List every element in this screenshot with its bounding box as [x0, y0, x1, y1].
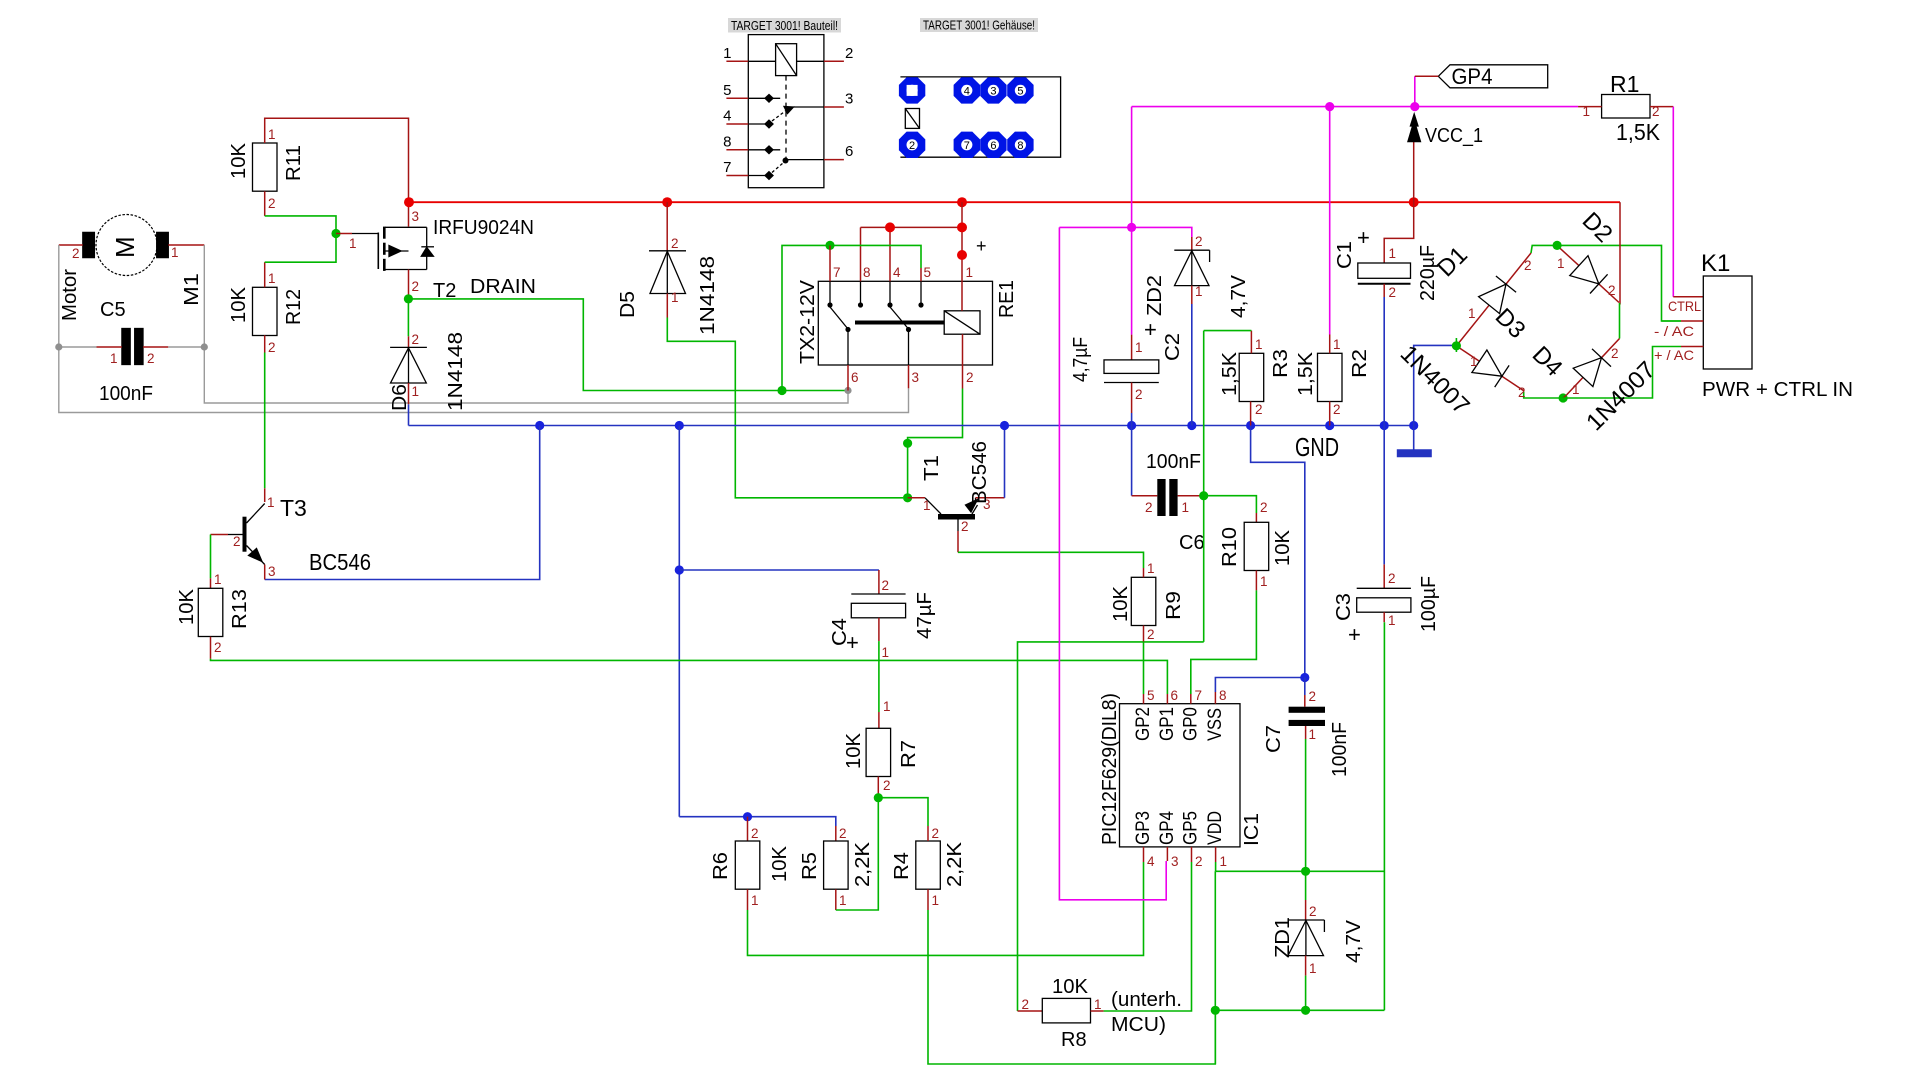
wire R3 branch to VSS and C7.2	[1251, 426, 1305, 678]
relay symbol pin 2	[824, 60, 844, 62]
node junction R6.2	[743, 812, 752, 821]
capacitor C2 4,7uF	[1131, 335, 1133, 360]
svg-text:GP0: GP0	[1181, 707, 1202, 741]
wire GP4 horizontal to ZD2	[1059, 227, 1191, 237]
wire R4.1 to VDD rail	[927, 889, 929, 910]
wire VDD vertical to R4 rail	[1214, 871, 1216, 1064]
transistor T3 BC546	[243, 517, 247, 552]
zener ZD1 4,7V	[1305, 871, 1307, 900]
relay package pad 6	[980, 132, 1006, 158]
resistor R11	[253, 143, 278, 191]
wire relay pin7 stub	[829, 245, 831, 281]
wire relay pin6 stub	[847, 365, 849, 391]
node gate junction	[331, 229, 340, 238]
wire bridge plus riser	[1619, 202, 1621, 304]
svg-text:GP4: GP4	[1452, 64, 1493, 89]
node GND junction symbol	[1409, 421, 1418, 430]
node GP4 junction R2	[1325, 102, 1334, 111]
svg-text:2: 2	[845, 45, 853, 62]
wire ZD1 lower rail	[1215, 1009, 1384, 1011]
wire node to R4.2	[878, 798, 928, 826]
svg-text:1: 1	[267, 495, 275, 510]
svg-text:R11: R11	[283, 145, 305, 181]
svg-text:2: 2	[1309, 904, 1317, 919]
svg-text:R5: R5	[799, 852, 821, 880]
svg-text:C3: C3	[1333, 593, 1355, 621]
relay symbol coil	[776, 44, 797, 76]
transistor T1 BC546	[908, 497, 925, 499]
svg-text:1,5K: 1,5K	[1219, 351, 1241, 396]
svg-text:10K: 10K	[1272, 529, 1294, 566]
wire GP4 long vertical to MCU	[1059, 227, 1166, 899]
resistor R10	[1244, 522, 1269, 570]
svg-text:M: M	[110, 236, 140, 258]
relay symbol pin 8	[726, 149, 748, 151]
node bridge AC top junction	[1553, 241, 1562, 250]
svg-text:Motor: Motor	[59, 269, 81, 321]
resistor R1 (horizontal)	[1602, 95, 1650, 119]
zener ZD2 4,7V	[1191, 237, 1193, 250]
node gray junction relay pin6/motor	[844, 387, 851, 394]
svg-text:TARGET 3001! Gehäuse!: TARGET 3001! Gehäuse!	[923, 19, 1035, 33]
svg-text:7: 7	[964, 140, 970, 152]
svg-text:3: 3	[268, 564, 276, 579]
wire R13.2 stub	[210, 637, 212, 659]
node drain junction	[404, 294, 413, 303]
svg-text:C5: C5	[100, 299, 126, 321]
svg-text:1: 1	[723, 45, 731, 62]
svg-text:1: 1	[349, 236, 357, 251]
svg-text:2: 2	[1145, 500, 1153, 515]
wire GND bus	[409, 425, 1414, 427]
C5 pin1 stub	[96, 346, 122, 348]
svg-text:2: 2	[1388, 571, 1396, 586]
svg-text:GND: GND	[1295, 432, 1339, 462]
svg-text:1: 1	[1309, 727, 1317, 742]
motor M1	[96, 215, 157, 276]
svg-text:1: 1	[268, 127, 276, 142]
relay symbol pin 4	[726, 123, 748, 125]
relay RE1 TX2-12V box	[818, 281, 992, 365]
wire T1 base to R9	[958, 552, 1144, 568]
relay package pad 1	[899, 77, 925, 103]
relay symbol pin 1	[726, 60, 748, 62]
svg-text:2: 2	[214, 640, 222, 655]
svg-text:10K: 10K	[843, 732, 865, 769]
node coil feed junction pin1	[957, 222, 967, 232]
resistor R5	[824, 841, 849, 889]
svg-text:2: 2	[1260, 500, 1268, 515]
svg-text:3: 3	[845, 91, 853, 108]
svg-text:C2: C2	[1162, 333, 1184, 361]
wire C7.2 stub	[1304, 678, 1306, 696]
svg-text:7: 7	[833, 265, 841, 280]
wire D6 anode to GND bus	[408, 404, 410, 425]
wire gray motor-right net	[204, 245, 848, 403]
wire R2.1 magenta vertical	[1329, 107, 1331, 335]
svg-text:GP3: GP3	[1133, 811, 1154, 845]
wire R9.1 stub	[1143, 568, 1145, 577]
svg-text:BC546: BC546	[969, 441, 991, 504]
wire C6 net to R3.1	[1204, 330, 1252, 332]
node junction C4.2 branch	[675, 565, 684, 574]
svg-text:1N4148: 1N4148	[697, 256, 719, 335]
wire T1 emitter to GND bus	[1004, 426, 1006, 498]
svg-text:PIC12F629(DIL8): PIC12F629(DIL8)	[1099, 693, 1121, 845]
node bus junction R11/T2	[404, 197, 414, 207]
svg-text:7: 7	[723, 159, 731, 176]
svg-text:ZD1: ZD1	[1272, 917, 1294, 958]
svg-text:2: 2	[1389, 285, 1397, 300]
wire GP4 flag stub	[1415, 75, 1439, 77]
svg-text:T3: T3	[280, 495, 307, 521]
wire relay aux contacts to drain	[782, 245, 921, 390]
svg-text:C1: C1	[1334, 241, 1356, 269]
svg-text:R9: R9	[1163, 591, 1185, 620]
node junction C7.2	[1300, 673, 1309, 682]
RE1 switch arm 7-6	[830, 307, 848, 329]
svg-text:2: 2	[1611, 346, 1619, 361]
svg-text:1: 1	[412, 384, 420, 399]
svg-text:R4: R4	[891, 852, 913, 880]
svg-text:+: +	[1144, 317, 1157, 342]
svg-text:IRFU9024N: IRFU9024N	[433, 217, 534, 239]
wire gate divider net	[265, 216, 336, 262]
RE1 coil pin1 inside	[961, 281, 963, 311]
svg-text:2: 2	[147, 351, 155, 366]
wire C4.1 to R7.1	[878, 641, 880, 712]
svg-text:T1: T1	[921, 455, 943, 481]
svg-text:R10: R10	[1219, 527, 1241, 567]
wire C3.1 to VDD rail	[1383, 622, 1385, 1010]
resistor R2	[1318, 353, 1343, 401]
power VCC_1 arrow	[1413, 142, 1415, 202]
relay package pad 8	[1007, 132, 1033, 158]
svg-text:IC1: IC1	[1241, 813, 1263, 846]
wire R1.1 stub	[1578, 106, 1602, 108]
wire R13.2 to GP1 long run	[211, 659, 1168, 694]
svg-text:1,5K: 1,5K	[1616, 119, 1661, 145]
wire C2.2 to GND	[1131, 413, 1133, 426]
relay symbol switch arm 7-6	[772, 163, 783, 173]
relay symbol pin 5	[726, 97, 748, 99]
svg-text:4,7V: 4,7V	[1228, 274, 1250, 318]
capacitor C7 100nF	[1289, 707, 1325, 713]
IC1 pin2 stub	[1191, 847, 1193, 862]
relay symbol dashed link	[785, 76, 787, 160]
resistor R9	[1131, 577, 1156, 625]
wire C3.2 from GND	[1383, 426, 1385, 565]
svg-text:R6: R6	[710, 852, 732, 880]
svg-text:1: 1	[751, 893, 759, 908]
svg-text:1: 1	[932, 893, 940, 908]
node T1 collector net junction a	[903, 439, 912, 448]
svg-text:2: 2	[1333, 402, 1341, 417]
svg-text:2: 2	[1518, 385, 1526, 400]
svg-text:220µF: 220µF	[1417, 245, 1439, 301]
node relay pin7 junction	[825, 241, 834, 250]
svg-text:3: 3	[412, 209, 420, 224]
svg-text:TARGET 3001! Bauteil!: TARGET 3001! Bauteil!	[731, 19, 838, 33]
svg-text:2: 2	[1608, 283, 1616, 298]
svg-text:BC546: BC546	[309, 549, 371, 575]
svg-text:1: 1	[171, 245, 179, 260]
svg-text:2: 2	[72, 246, 80, 261]
svg-text:1: 1	[1255, 337, 1263, 352]
wire C6 net to R8.2 run	[1018, 642, 1204, 1011]
wire drain run to relay common	[408, 299, 845, 391]
svg-text:2: 2	[233, 534, 241, 549]
wire C4.2 branch	[679, 569, 879, 571]
wire R6.1 to GP3	[747, 889, 749, 910]
node bus junction relay coil	[957, 197, 967, 207]
svg-text:D5: D5	[617, 291, 639, 318]
wire C6 net vertical	[1203, 331, 1205, 642]
svg-text:8: 8	[863, 265, 871, 280]
node junction VDD/C7/ZD1	[1301, 867, 1310, 876]
relay symbol pin 7	[726, 175, 748, 177]
wire ZD2.1 to GND	[1191, 304, 1193, 426]
wire bridge left corner jogs	[1455, 338, 1457, 352]
svg-text:100nF: 100nF	[1146, 451, 1201, 473]
svg-text:5: 5	[1147, 688, 1155, 703]
svg-text:ZD2: ZD2	[1144, 275, 1166, 316]
IC1 pin7 stub	[1190, 694, 1192, 704]
svg-text:1: 1	[882, 645, 890, 660]
svg-text:2: 2	[1309, 689, 1317, 704]
wire +AC stub	[1681, 346, 1703, 348]
relay package pad 7	[954, 132, 980, 158]
relay component symbol box	[748, 35, 824, 188]
node junction R7.2/R5.1/R4.2	[874, 793, 883, 802]
svg-text:R3: R3	[1270, 349, 1292, 378]
diode D5 1N4148	[666, 202, 668, 251]
diode D2 1N4007	[1560, 248, 1579, 266]
svg-text:R7: R7	[898, 740, 920, 768]
diode D1 1N4007	[1458, 305, 1490, 344]
svg-text:2: 2	[966, 370, 974, 385]
svg-text:2: 2	[932, 826, 940, 841]
svg-text:+: +	[976, 236, 987, 256]
svg-text:10K: 10K	[1110, 585, 1132, 622]
svg-text:1: 1	[671, 290, 679, 305]
svg-text:R8: R8	[1061, 1029, 1087, 1051]
wire T2 source stub	[408, 202, 410, 226]
svg-text:6: 6	[1171, 688, 1179, 703]
svg-text:1: 1	[966, 265, 974, 280]
svg-text:10K: 10K	[228, 142, 250, 179]
svg-text:10K: 10K	[176, 588, 198, 625]
svg-text:GP1: GP1	[1157, 707, 1178, 741]
svg-text:100nF: 100nF	[1329, 722, 1351, 777]
node GND junction T3-emitter branch	[535, 421, 544, 430]
svg-text:C6: C6	[1179, 532, 1205, 554]
wire C6 net to R10.2	[1204, 496, 1257, 513]
svg-text:1: 1	[1388, 613, 1396, 628]
svg-text:1: 1	[1182, 500, 1190, 515]
svg-text:R2: R2	[1349, 349, 1371, 378]
svg-text:CTRL: CTRL	[1668, 298, 1701, 314]
svg-text:2: 2	[909, 140, 915, 152]
svg-text:1: 1	[923, 498, 931, 513]
node bus junction D5	[662, 197, 672, 207]
svg-text:1: 1	[1557, 256, 1565, 271]
wire R5.2 stub	[835, 826, 837, 841]
svg-text:1: 1	[268, 271, 276, 286]
wire gate stub	[336, 233, 352, 235]
svg-text:2: 2	[412, 332, 420, 347]
svg-text:2: 2	[268, 340, 276, 355]
svg-text:4: 4	[1147, 854, 1155, 869]
svg-text:R13: R13	[229, 589, 251, 629]
svg-text:M1: M1	[181, 273, 203, 306]
resistor R7	[866, 728, 891, 776]
svg-text:1: 1	[1470, 354, 1478, 369]
svg-text:1: 1	[1389, 246, 1397, 261]
node GND junction ZD2	[1187, 421, 1196, 430]
svg-text:+: +	[1357, 225, 1370, 250]
svg-text:1: 1	[1260, 574, 1268, 589]
node GP4 junction C2	[1127, 223, 1136, 232]
wire T3 base down	[210, 535, 212, 579]
svg-text:1N4148: 1N4148	[445, 332, 467, 411]
RE1 contact pin4	[889, 281, 891, 305]
svg-text:8: 8	[723, 134, 731, 151]
node gray junction C5.1	[55, 343, 62, 350]
svg-text:5: 5	[1017, 85, 1023, 97]
C5 pin2 stub	[143, 346, 168, 348]
RE1 contact pin8	[860, 281, 862, 305]
relay package pad 5	[1007, 77, 1033, 103]
wire R3.1 stub	[1250, 331, 1252, 354]
svg-text:3: 3	[912, 370, 920, 385]
wire gray C5.2 tap	[168, 346, 204, 348]
wire R11.1 to VCC riser	[265, 118, 409, 202]
svg-text:1: 1	[839, 893, 847, 908]
wire bridge bottom to +AC	[1563, 347, 1681, 399]
svg-text:1: 1	[1309, 961, 1317, 976]
svg-text:1: 1	[883, 699, 891, 714]
IC IC1 PIC12F629(DIL8)	[1120, 704, 1241, 847]
wire motor pin2 stub	[59, 244, 83, 246]
wire R2.1 stub	[1329, 335, 1331, 354]
svg-text:VSS: VSS	[1205, 708, 1226, 741]
wire R2.2 stub	[1329, 402, 1331, 426]
wire R3.2 stub	[1250, 402, 1252, 426]
node drain/relay-aux junction	[777, 386, 786, 395]
resistor R13	[198, 588, 223, 636]
svg-text:1: 1	[1572, 382, 1580, 397]
RE1 contact pin7	[829, 281, 831, 305]
svg-text:5: 5	[723, 82, 731, 99]
RE1 coil	[944, 311, 980, 334]
wire GP3 branch blue	[679, 817, 836, 826]
wire relay pin3 stub	[908, 365, 910, 388]
label TARGET 3001! Bauteil!	[728, 18, 841, 33]
node GND junction C2/C6	[1127, 421, 1136, 430]
node T1 collector net junction b	[903, 493, 912, 502]
node bridge AC bottom junction	[1559, 393, 1568, 402]
wire R11.2 stub	[264, 191, 266, 216]
svg-text:MCU): MCU)	[1111, 1014, 1166, 1036]
relay symbol switch arm 4-3	[772, 111, 786, 122]
IC1 pin1 stub	[1215, 847, 1217, 862]
svg-text:4,7V: 4,7V	[1343, 919, 1365, 963]
wire R12.2 to T3 collector	[264, 335, 266, 352]
wire motor pin1 stub	[168, 244, 204, 246]
svg-text:6: 6	[845, 143, 853, 160]
capacitor C3 100uF	[1357, 587, 1411, 589]
svg-text:+: +	[846, 630, 859, 655]
svg-text:2: 2	[961, 519, 969, 534]
RE1 switch arm 4-3	[890, 307, 909, 329]
svg-text:(unterh.: (unterh.	[1111, 989, 1182, 1011]
wire C4/R5R6 branch vertical	[678, 426, 680, 817]
wire GP4 to C2 vertical	[1131, 107, 1133, 228]
svg-text:VDD: VDD	[1205, 811, 1226, 845]
svg-text:7: 7	[1195, 688, 1203, 703]
RE1 coil pin2 inside	[962, 334, 964, 365]
svg-text:R1: R1	[1610, 71, 1639, 97]
wire bridge top corner	[1531, 245, 1681, 321]
wire drain to D6	[407, 299, 409, 336]
svg-text:2,2K: 2,2K	[944, 841, 966, 887]
svg-text:1: 1	[1147, 561, 1155, 576]
wire VCC bus	[409, 201, 1620, 203]
node GND junction R3/VSS branch	[1246, 421, 1255, 430]
resistor R6	[735, 841, 760, 889]
wire R9.2 to GP2	[1143, 626, 1145, 642]
svg-text:GP5: GP5	[1181, 811, 1202, 845]
svg-text:2: 2	[1147, 627, 1155, 642]
svg-text:2: 2	[1021, 997, 1029, 1012]
svg-text:5: 5	[924, 265, 932, 280]
svg-text:GP2: GP2	[1133, 707, 1154, 741]
svg-text:VCC_1: VCC_1	[1425, 125, 1483, 147]
svg-text:2: 2	[839, 826, 847, 841]
svg-text:GP4: GP4	[1157, 811, 1178, 845]
svg-text:+ / AC: + / AC	[1654, 347, 1694, 363]
wire C1.1 feed	[1384, 202, 1414, 263]
svg-text:C7: C7	[1263, 725, 1285, 753]
svg-text:1: 1	[214, 572, 222, 587]
svg-text:8: 8	[1219, 688, 1227, 703]
wire T3 emitter branch	[265, 426, 540, 580]
svg-text:100nF: 100nF	[99, 383, 153, 405]
svg-text:1: 1	[1135, 340, 1143, 355]
svg-text:3: 3	[990, 85, 996, 97]
wire GP4 net horizontal	[1132, 106, 1579, 108]
svg-text:+: +	[1348, 622, 1361, 647]
svg-text:1: 1	[1094, 997, 1102, 1012]
svg-text:100µF: 100µF	[1418, 576, 1440, 632]
svg-text:2: 2	[1255, 402, 1263, 417]
wire R1.2 stub	[1650, 106, 1673, 108]
wire bridge bottom corner	[1524, 392, 1563, 398]
relay package pad 2	[899, 132, 925, 158]
RE1 contact pin5	[920, 281, 922, 305]
resistor R4	[916, 841, 941, 889]
svg-text:47µF: 47µF	[914, 592, 936, 639]
svg-text:2: 2	[751, 826, 759, 841]
svg-text:R12: R12	[283, 289, 305, 325]
node bus junction VCC arrow	[1409, 197, 1419, 207]
wire T2 drain stub	[408, 270, 410, 296]
ground symbol	[1413, 426, 1415, 450]
IC1 pin3 stub	[1166, 847, 1168, 861]
IC1 pin6 stub	[1166, 694, 1168, 704]
capacitor C6 100nF	[1131, 426, 1133, 496]
